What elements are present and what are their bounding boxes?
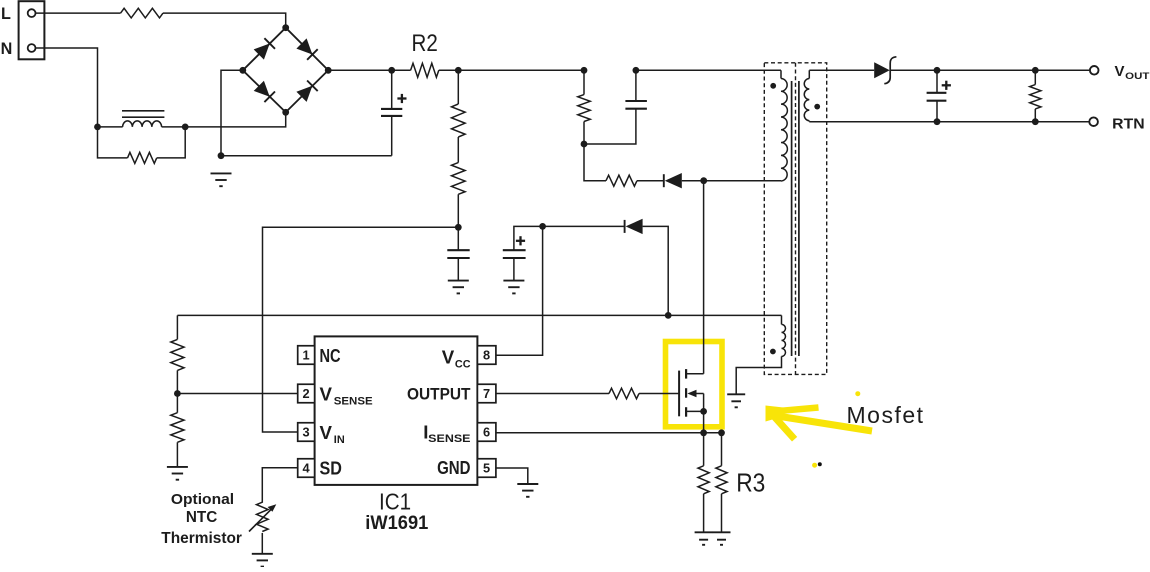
label iW1691 (365, 513, 428, 534)
node (700, 429, 707, 436)
svg-text:SD: SD (320, 458, 342, 478)
node (282, 109, 289, 116)
svg-text:V: V (320, 422, 333, 443)
annotation dot pair (812, 462, 822, 468)
pin 6 box (477, 423, 496, 442)
wire (682, 180, 704, 182)
terminal VOUT (1090, 66, 1099, 75)
fuse F1 (121, 8, 163, 18)
ground (167, 467, 188, 480)
node (581, 141, 588, 148)
resistor R3a (698, 433, 709, 533)
resistor (clamp) (606, 175, 637, 186)
resistor R3b (716, 433, 727, 533)
annotation dot (yellow) (855, 391, 860, 396)
node (455, 67, 462, 74)
phase dot (secondary) (814, 104, 820, 110)
svg-text:R2: R2 (412, 30, 438, 57)
bridge diode D4 (bottom-right) (296, 81, 317, 102)
resistor (gate) (609, 388, 639, 399)
label R2 (412, 30, 438, 57)
wire (176, 370, 178, 393)
node (388, 67, 395, 74)
op-amp/controller IC1 body (315, 336, 478, 485)
node (718, 429, 725, 436)
phase dot (primary) (770, 83, 776, 89)
pin label VCC (442, 347, 471, 371)
capacitor (VIN bypass) (447, 227, 469, 280)
ground (transformer) (727, 394, 745, 407)
wire (drain) (703, 181, 705, 374)
wire (221, 70, 243, 155)
node (633, 67, 640, 74)
wire (639, 393, 679, 395)
svg-text:IN: IN (334, 434, 345, 446)
bridge diode D1 (left-top) (254, 38, 275, 59)
annotation arrow (yellow) (766, 406, 873, 440)
NTC thermistor RT1 (249, 502, 276, 531)
ground (252, 554, 273, 567)
svg-text:V: V (1115, 63, 1125, 80)
svg-text:SENSE: SENSE (428, 433, 470, 445)
wire (GND pin) (496, 468, 528, 484)
pin 7 box (477, 384, 496, 403)
svg-text:NC: NC (320, 346, 341, 366)
capacitor C1 (bulk) (381, 70, 402, 155)
terminal RTN (1089, 117, 1098, 126)
pin 3 box (298, 423, 315, 442)
node (700, 408, 707, 415)
pin 5 box (477, 459, 496, 478)
MOSFET highlight box (666, 342, 723, 427)
transformer T1 boundary (dashed) (764, 63, 826, 375)
svg-text:R3: R3 (736, 468, 765, 498)
node (665, 312, 672, 319)
svg-text:Thermistor: Thermistor (161, 530, 242, 547)
wire (177, 393, 297, 395)
transformer core (792, 81, 799, 356)
label RTN (1112, 115, 1144, 132)
svg-text:5: 5 (483, 461, 490, 476)
svg-text:IC1: IC1 (379, 489, 411, 515)
node (239, 67, 246, 74)
wire (704, 180, 781, 182)
label R3 (736, 468, 765, 498)
bridge diode D3 (left-bottom) (254, 81, 275, 102)
capacitor C2 (VCC) (503, 226, 543, 280)
svg-text:NTC: NTC (186, 509, 217, 526)
label VOUT (1115, 63, 1150, 82)
label Optional NTC Thermistor (161, 492, 242, 547)
svg-text:CC: CC (455, 358, 471, 370)
svg-text:8: 8 (483, 348, 490, 363)
svg-text:Mosfet: Mosfet (847, 402, 924, 428)
resistor (snubber) (578, 70, 590, 144)
ground (503, 281, 524, 294)
node (182, 124, 189, 131)
pin 2 box (298, 384, 315, 403)
wire (177, 314, 668, 316)
secondary return (808, 121, 810, 123)
resistor (startup lower) (452, 137, 466, 227)
secondary winding (804, 70, 809, 121)
diode (clamp) (664, 173, 682, 188)
pin label NC (320, 346, 341, 366)
label IC1 (379, 489, 411, 515)
node (218, 152, 225, 159)
common-mode choke L1 (98, 111, 186, 127)
pin 4 box (298, 459, 315, 478)
svg-text:4: 4 (303, 461, 311, 476)
wire (163, 13, 286, 28)
pin label VIN (320, 422, 345, 446)
primary winding (781, 70, 787, 181)
wire (328, 69, 392, 71)
wire (584, 144, 606, 181)
label Mosfet (847, 402, 924, 428)
capacitor C3 (output) (927, 70, 947, 121)
wire (VCC pin) (496, 226, 543, 355)
svg-text:GND: GND (437, 458, 470, 478)
node (934, 67, 941, 74)
wire (543, 225, 625, 227)
transistor Q1 (MOSFET) (679, 369, 704, 417)
svg-text:SENSE: SENSE (334, 396, 373, 408)
polarity + (516, 236, 525, 245)
svg-text:2: 2 (303, 386, 310, 401)
pin label SD (320, 458, 342, 478)
label N (1, 40, 13, 58)
schottky diode (output) (874, 57, 896, 84)
svg-text:OUT: OUT (1125, 71, 1149, 82)
node (94, 124, 101, 131)
polarity + (942, 81, 951, 90)
svg-text:7: 7 (483, 386, 490, 401)
svg-text:V: V (320, 384, 333, 405)
wire (185, 112, 286, 127)
resistor (VSENSE upper) (171, 315, 184, 370)
wire (SD pin) (262, 468, 297, 503)
pin 1 box (298, 346, 315, 365)
node (174, 390, 181, 397)
wire (668, 314, 781, 316)
resistor R2 (411, 63, 439, 77)
svg-text:3: 3 (303, 425, 310, 440)
phase dot (auxiliary) (770, 349, 776, 355)
wire (36, 48, 98, 127)
polarity + (397, 94, 406, 103)
wire (ISENSE pin) (496, 432, 722, 434)
node (1032, 118, 1039, 125)
bridge rectifier frame (243, 28, 328, 113)
wire (OUTPUT pin) (496, 393, 609, 395)
wire (809, 69, 874, 71)
svg-text:6: 6 (483, 425, 490, 440)
wire (643, 226, 669, 315)
svg-text:OUTPUT: OUTPUT (407, 384, 471, 403)
pin label OUTPUT (407, 384, 471, 403)
terminal block J1 (19, 1, 45, 59)
pin 8 box (477, 346, 496, 365)
capacitor (snubber) (584, 70, 647, 144)
svg-text:N: N (1, 40, 13, 58)
node (455, 224, 462, 231)
pin label ISENSE (423, 421, 470, 445)
ground (517, 484, 538, 497)
svg-text:iW1691: iW1691 (365, 513, 428, 534)
svg-text:RTN: RTN (1112, 115, 1144, 132)
node (539, 223, 546, 230)
svg-text:L: L (1, 5, 11, 23)
ground (448, 281, 469, 294)
pin label GND (437, 458, 470, 478)
wire (392, 69, 411, 71)
wire (439, 69, 584, 71)
node (282, 24, 289, 31)
wire (263, 227, 459, 432)
pin label VSENSE (320, 384, 373, 408)
wire (637, 180, 664, 182)
resistor (choke damping) (98, 127, 186, 163)
label L (1, 5, 11, 23)
wire (36, 12, 121, 14)
wire (636, 69, 781, 71)
wire (261, 533, 263, 554)
node (700, 177, 707, 184)
node (1032, 67, 1039, 74)
wire (RTN rail) (809, 121, 1089, 123)
resistor (startup upper) (452, 70, 466, 137)
node (581, 67, 588, 74)
resistor (output load) (1030, 70, 1041, 121)
svg-text:V: V (442, 347, 455, 368)
ground (713, 532, 731, 545)
auxiliary winding (736, 315, 785, 394)
wire (221, 155, 392, 157)
diode (VCC rectifier) (625, 219, 643, 234)
node (934, 118, 941, 125)
resistor (VSENSE lower) (171, 394, 184, 467)
svg-text:Optional: Optional (171, 492, 234, 508)
wire (890, 69, 1090, 71)
wire (source) (703, 411, 705, 432)
svg-text:1: 1 (303, 348, 310, 363)
node (325, 67, 332, 74)
ground (695, 532, 713, 545)
bridge diode D2 (top-right) (296, 38, 317, 59)
ground (DC bus negative) (211, 173, 232, 186)
